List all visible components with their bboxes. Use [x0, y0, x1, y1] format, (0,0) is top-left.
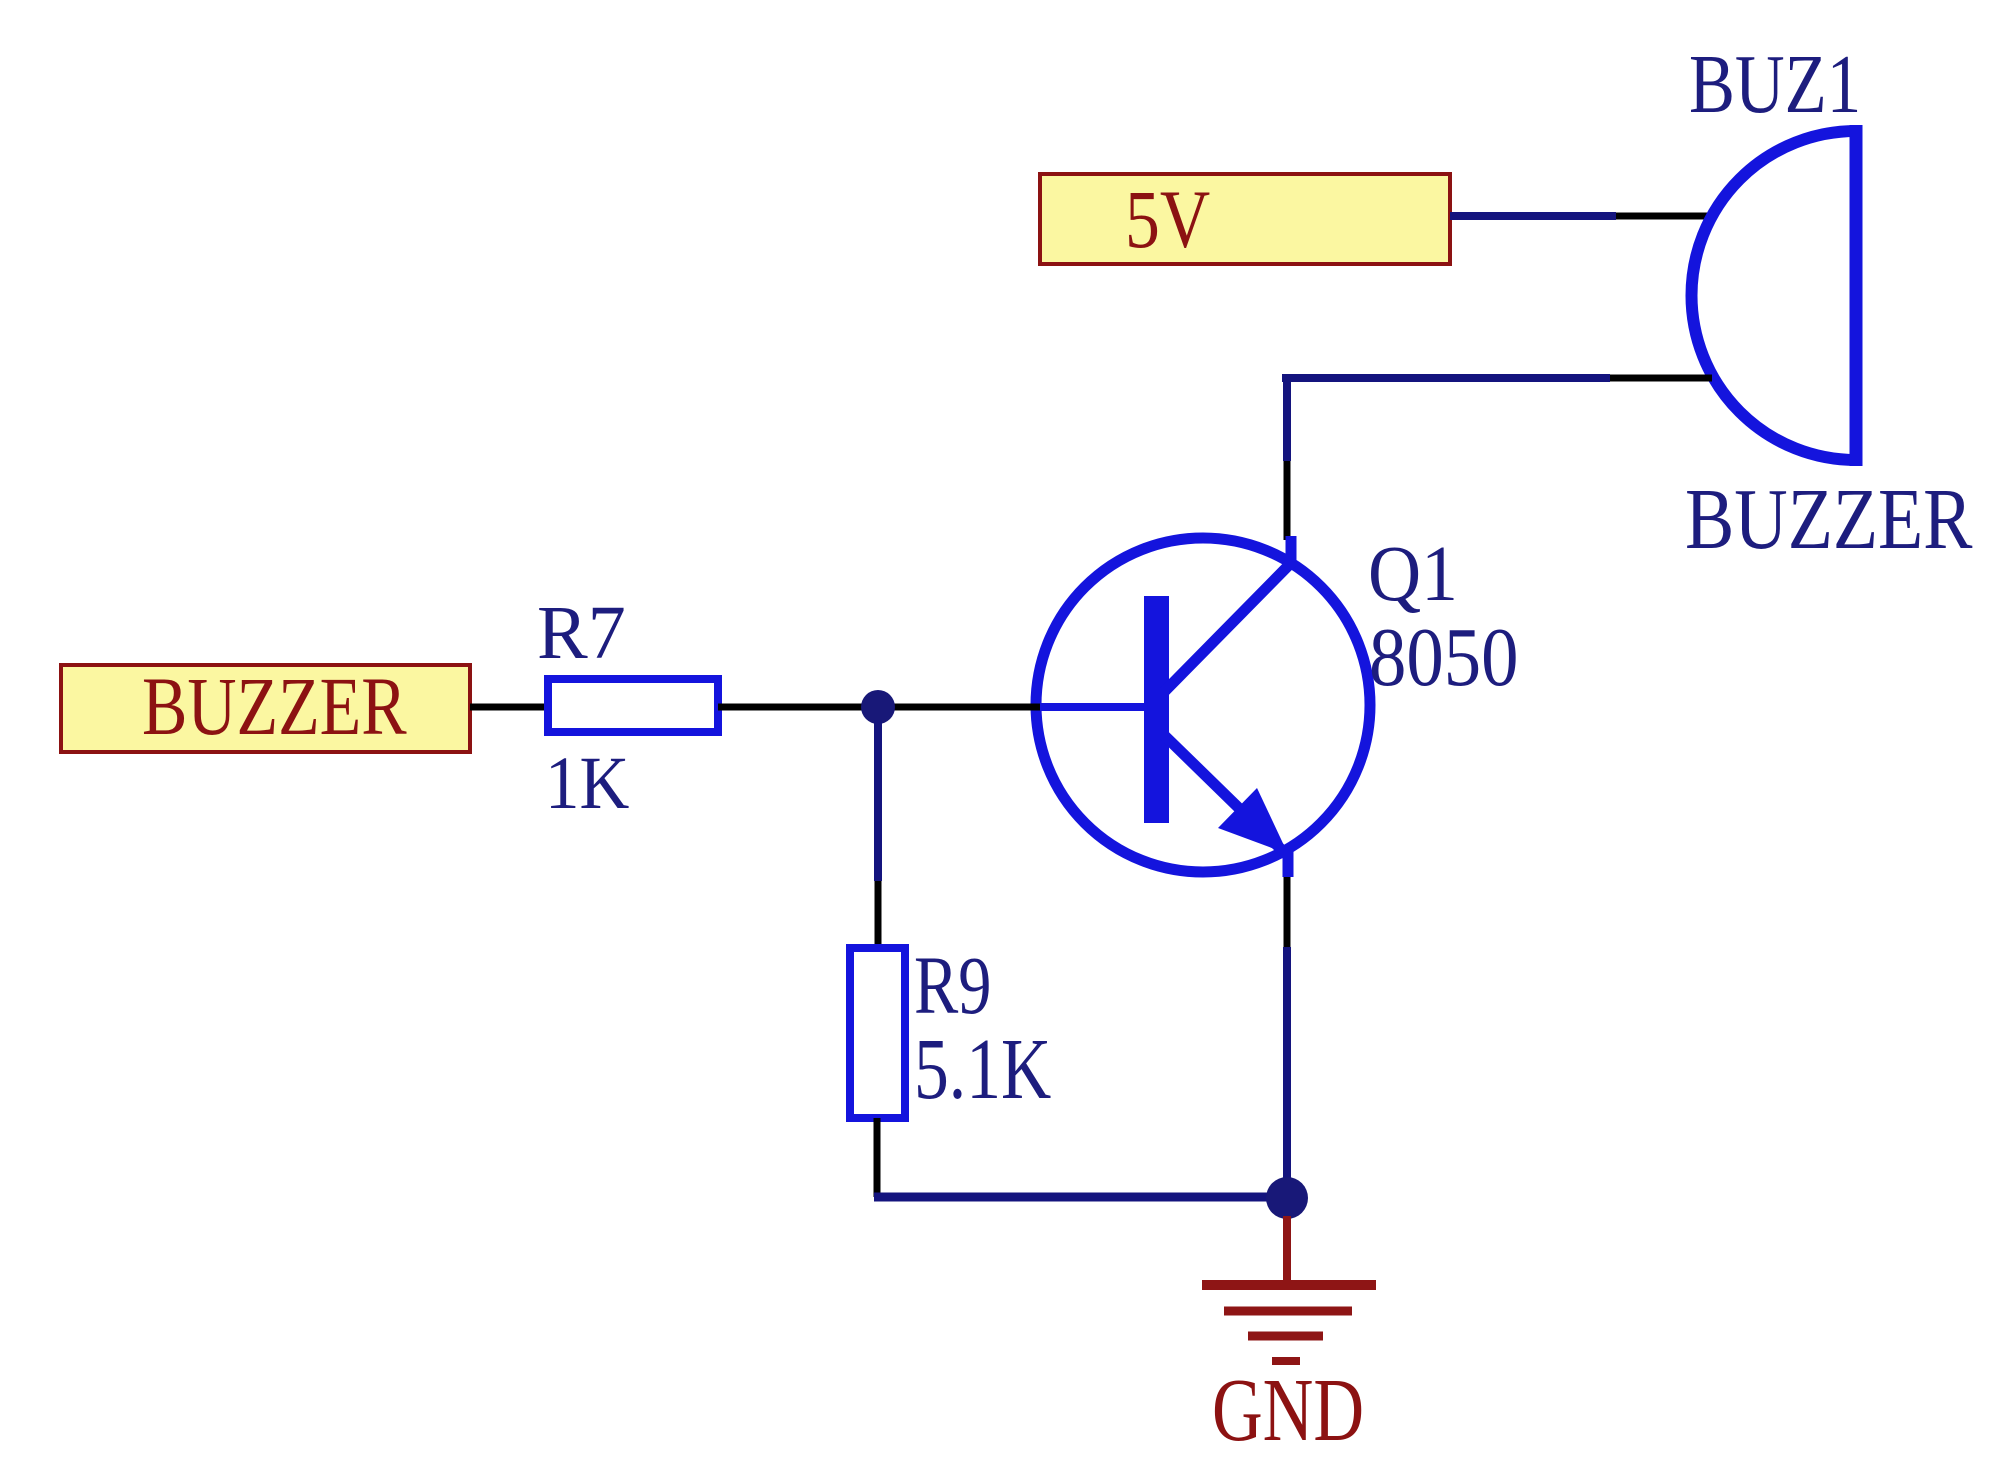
svg-text:5.1K: 5.1K: [914, 1022, 1051, 1118]
svg-text:1K: 1K: [545, 741, 629, 824]
svg-text:Q1: Q1: [1368, 529, 1458, 617]
svg-text:BUZZER: BUZZER: [1685, 471, 1973, 567]
svg-text:5V: 5V: [1125, 173, 1210, 265]
svg-text:BUZZER: BUZZER: [142, 661, 407, 753]
svg-text:BUZ1: BUZ1: [1689, 38, 1861, 131]
svg-text:R7: R7: [537, 591, 626, 675]
svg-text:GND: GND: [1212, 1361, 1364, 1453]
svg-text:8050: 8050: [1369, 611, 1518, 704]
svg-text:R9: R9: [914, 940, 991, 1032]
